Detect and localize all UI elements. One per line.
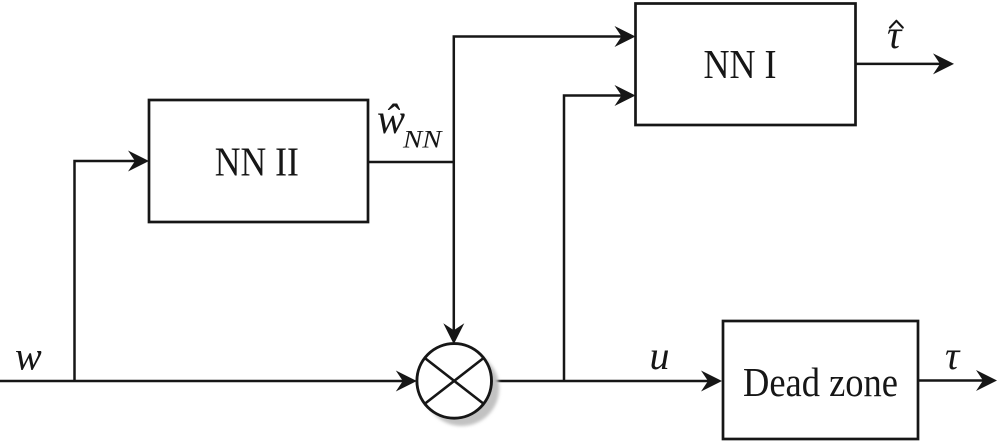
svg-text:NN II: NN II: [215, 139, 299, 185]
svg-text:w: w: [15, 334, 42, 379]
svg-text:NN I: NN I: [704, 41, 777, 87]
svg-text:τ: τ: [887, 12, 903, 57]
svg-text:NN: NN: [402, 125, 444, 154]
svg-text:ŵ: ŵ: [377, 97, 405, 143]
svg-text:u: u: [650, 333, 670, 378]
svg-text:τ: τ: [945, 333, 961, 378]
svg-text:Dead zone: Dead zone: [743, 359, 898, 405]
